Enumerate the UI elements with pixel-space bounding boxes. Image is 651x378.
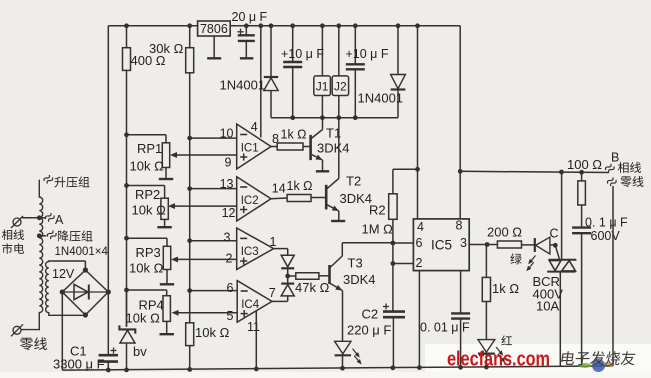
svg-text:6: 6 (227, 281, 234, 295)
svg-text:C2: C2 (362, 307, 379, 322)
svg-text:10k Ω: 10k Ω (126, 311, 161, 326)
svg-text:12V: 12V (52, 267, 75, 281)
svg-text:6: 6 (416, 236, 423, 250)
svg-text:1M Ω: 1M Ω (362, 222, 394, 237)
svg-text:+10 μ F: +10 μ F (281, 47, 324, 61)
svg-text:T2: T2 (346, 174, 361, 189)
svg-text:3: 3 (460, 236, 467, 250)
svg-text:20 μ F: 20 μ F (232, 10, 268, 24)
svg-text:1k Ω: 1k Ω (287, 179, 313, 193)
svg-text:600V: 600V (591, 229, 621, 243)
svg-text:RP2: RP2 (135, 187, 160, 202)
svg-text:IC2: IC2 (241, 195, 259, 207)
svg-text:J2: J2 (334, 80, 347, 94)
svg-text:10A: 10A (536, 299, 559, 314)
svg-text:8: 8 (456, 219, 463, 233)
svg-text:1k Ω: 1k Ω (492, 281, 519, 296)
svg-text:100 Ω: 100 Ω (567, 157, 602, 172)
svg-text:7806: 7806 (200, 22, 228, 36)
svg-text:RP3: RP3 (136, 245, 161, 260)
svg-text:9: 9 (225, 156, 232, 170)
svg-text:3: 3 (224, 231, 231, 245)
svg-text:IC1: IC1 (241, 142, 259, 154)
svg-text:0. 1 μ F: 0. 1 μ F (585, 216, 628, 230)
svg-text:T3: T3 (348, 256, 363, 271)
svg-text:1N4001: 1N4001 (220, 78, 266, 93)
svg-text:2: 2 (226, 252, 233, 266)
svg-text:3DK4: 3DK4 (340, 191, 373, 206)
svg-text:bv: bv (133, 344, 147, 359)
svg-text:RP1: RP1 (137, 141, 162, 156)
svg-text:3DK4: 3DK4 (343, 272, 376, 287)
svg-text:10k Ω: 10k Ω (195, 325, 230, 340)
svg-text:0. 01 μ F: 0. 01 μ F (420, 321, 470, 335)
svg-text:B: B (611, 151, 619, 165)
svg-text:J1: J1 (316, 80, 329, 94)
svg-text:5: 5 (227, 309, 234, 323)
svg-text:elecfans.com: elecfans.com (447, 348, 550, 371)
svg-text:11: 11 (247, 320, 260, 334)
svg-text:13: 13 (220, 177, 234, 191)
svg-text:IC3: IC3 (241, 246, 259, 258)
svg-text:IC4: IC4 (241, 299, 260, 311)
svg-text:IC5: IC5 (431, 238, 452, 253)
svg-text:30k Ω: 30k Ω (149, 41, 184, 56)
svg-text:14: 14 (272, 182, 286, 196)
svg-text:1k Ω: 1k Ω (281, 128, 307, 142)
svg-text:4: 4 (417, 220, 424, 234)
svg-text:7: 7 (269, 286, 276, 300)
svg-text:1N4001: 1N4001 (358, 91, 404, 106)
svg-text:47k Ω: 47k Ω (295, 280, 330, 295)
svg-text:1N4001×4: 1N4001×4 (55, 246, 109, 258)
svg-text:3DK4: 3DK4 (317, 141, 350, 156)
svg-text:1: 1 (270, 235, 277, 249)
svg-text:200 Ω: 200 Ω (487, 225, 522, 240)
svg-text:A: A (55, 213, 64, 227)
svg-text:4: 4 (251, 120, 258, 134)
svg-text:220 μ F: 220 μ F (347, 323, 391, 338)
svg-text:2: 2 (416, 256, 423, 270)
svg-text:10k Ω: 10k Ω (130, 159, 165, 174)
svg-text:12: 12 (222, 206, 236, 220)
svg-text:C: C (550, 227, 559, 241)
svg-text:+10 μ F: +10 μ F (346, 47, 389, 61)
svg-text:10k Ω: 10k Ω (129, 261, 164, 276)
svg-text:10: 10 (220, 127, 234, 141)
svg-text:10k Ω: 10k Ω (132, 203, 167, 218)
